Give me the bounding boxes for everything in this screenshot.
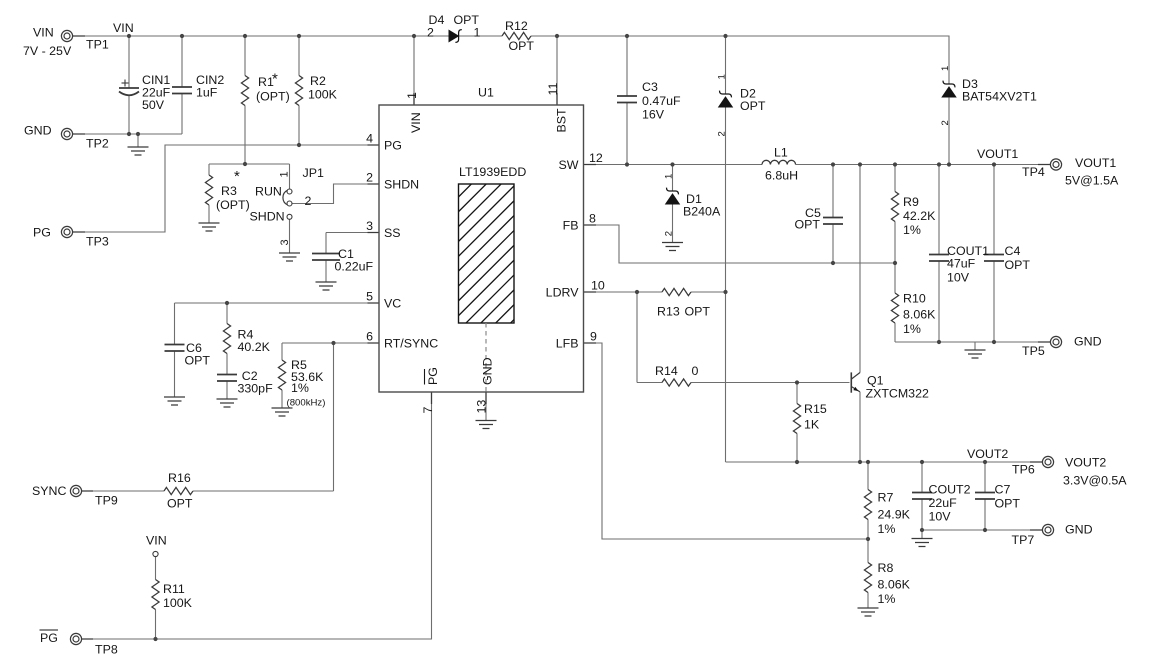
svg-text:Q1: Q1 <box>867 374 884 388</box>
svg-text:OPT: OPT <box>795 218 821 232</box>
svg-text:R16: R16 <box>168 471 191 485</box>
svg-text:TP2: TP2 <box>86 137 109 151</box>
svg-text:100K: 100K <box>163 596 193 610</box>
svg-text:11: 11 <box>546 83 560 96</box>
svg-text:100K: 100K <box>308 88 338 102</box>
svg-text:6: 6 <box>366 330 373 344</box>
svg-text:LT1939EDD: LT1939EDD <box>459 165 526 179</box>
svg-text:3.3V@0.5A: 3.3V@0.5A <box>1063 474 1127 488</box>
svg-text:R12: R12 <box>505 19 528 33</box>
svg-text:13: 13 <box>475 400 489 414</box>
svg-text:5: 5 <box>366 290 373 304</box>
svg-text:BAT54XV2T1: BAT54XV2T1 <box>962 90 1037 104</box>
svg-text:1: 1 <box>664 174 675 179</box>
svg-text:6.8uH: 6.8uH <box>765 169 798 183</box>
svg-text:R3: R3 <box>221 184 237 198</box>
svg-text:FB: FB <box>563 219 579 233</box>
svg-text:OPT: OPT <box>740 99 766 113</box>
svg-text:GND: GND <box>1065 523 1093 537</box>
svg-text:SHDN: SHDN <box>250 210 285 224</box>
svg-text:1%: 1% <box>291 381 309 395</box>
svg-text:OPT: OPT <box>185 354 211 368</box>
svg-text:40.2K: 40.2K <box>238 340 271 354</box>
svg-text:VC: VC <box>384 297 401 311</box>
svg-text:OPT: OPT <box>509 39 535 53</box>
svg-text:12: 12 <box>589 151 603 165</box>
svg-text:VOUT2: VOUT2 <box>967 447 1008 461</box>
svg-text:3: 3 <box>279 239 291 245</box>
svg-text:(800kHz): (800kHz) <box>287 398 326 409</box>
svg-text:8.06K: 8.06K <box>878 578 911 592</box>
svg-text:RT/SYNC: RT/SYNC <box>384 337 438 351</box>
svg-text:PG: PG <box>384 139 402 153</box>
svg-text:C4: C4 <box>1005 244 1021 258</box>
svg-text:GND: GND <box>24 124 52 138</box>
svg-text:10V: 10V <box>947 271 970 285</box>
svg-text:PG: PG <box>426 367 440 385</box>
svg-text:R8: R8 <box>878 561 894 575</box>
svg-text:(OPT): (OPT) <box>256 90 290 104</box>
svg-text:SS: SS <box>384 226 401 240</box>
svg-text:C3: C3 <box>642 80 658 94</box>
svg-text:8.06K: 8.06K <box>903 308 936 322</box>
svg-text:4: 4 <box>366 132 373 146</box>
svg-text:GND: GND <box>1074 335 1102 349</box>
svg-text:SW: SW <box>559 158 579 172</box>
svg-text:1: 1 <box>279 171 291 177</box>
svg-text:10V: 10V <box>929 510 952 524</box>
svg-text:R9: R9 <box>903 195 919 209</box>
svg-text:LDRV: LDRV <box>546 286 580 300</box>
svg-text:22uF: 22uF <box>929 496 958 510</box>
svg-text:VOUT1: VOUT1 <box>977 147 1018 161</box>
svg-text:0: 0 <box>692 364 699 378</box>
svg-text:330pF: 330pF <box>238 382 274 396</box>
svg-text:R13: R13 <box>657 305 680 319</box>
svg-text:RUN: RUN <box>255 185 282 199</box>
svg-text:PG: PG <box>33 226 51 240</box>
svg-text:1K: 1K <box>804 418 820 432</box>
svg-text:COUT2: COUT2 <box>929 483 971 497</box>
svg-text:PG: PG <box>40 631 58 645</box>
svg-text:TP3: TP3 <box>86 235 109 249</box>
svg-text:0.47uF: 0.47uF <box>642 94 681 108</box>
svg-text:1%: 1% <box>878 592 896 606</box>
svg-text:42.2K: 42.2K <box>903 209 936 223</box>
svg-text:7: 7 <box>421 407 435 414</box>
svg-text:8: 8 <box>589 212 596 226</box>
svg-text:LFB: LFB <box>556 337 579 351</box>
svg-text:C7: C7 <box>995 483 1011 497</box>
svg-text:0.22uF: 0.22uF <box>335 260 374 274</box>
svg-text:GND: GND <box>481 357 495 385</box>
svg-text:OPT: OPT <box>167 497 193 511</box>
svg-text:16V: 16V <box>642 108 665 122</box>
svg-text:1%: 1% <box>903 322 921 336</box>
svg-text:47uF: 47uF <box>947 257 976 271</box>
svg-text:TP6: TP6 <box>1012 463 1035 477</box>
svg-text:*: * <box>234 168 240 185</box>
svg-text:R11: R11 <box>163 582 185 596</box>
svg-text:2: 2 <box>940 120 951 125</box>
svg-text:U1: U1 <box>478 86 494 100</box>
svg-text:VIN: VIN <box>33 26 54 40</box>
svg-text:JP1: JP1 <box>303 166 324 180</box>
svg-text:L1: L1 <box>774 146 788 160</box>
svg-text:1uF: 1uF <box>196 86 218 100</box>
svg-text:1%: 1% <box>903 223 921 237</box>
svg-text:9: 9 <box>590 330 597 344</box>
svg-text:50V: 50V <box>142 98 165 112</box>
svg-text:SHDN: SHDN <box>384 178 419 192</box>
svg-text:3: 3 <box>366 219 373 233</box>
svg-text:2: 2 <box>717 131 728 136</box>
svg-text:R10: R10 <box>903 292 926 306</box>
svg-text:VOUT1: VOUT1 <box>1075 156 1116 170</box>
svg-text:VOUT2: VOUT2 <box>1065 456 1106 470</box>
svg-text:VIN: VIN <box>146 534 167 548</box>
svg-text:ZXTCM322: ZXTCM322 <box>866 387 929 401</box>
svg-text:24.9K: 24.9K <box>878 508 911 522</box>
svg-text:OPT: OPT <box>995 497 1021 511</box>
svg-text:7V - 25V: 7V - 25V <box>23 44 72 58</box>
svg-text:1: 1 <box>717 74 728 79</box>
svg-text:TP4: TP4 <box>1022 165 1045 179</box>
svg-text:2: 2 <box>427 26 434 40</box>
svg-text:(OPT): (OPT) <box>216 198 250 212</box>
svg-text:VIN: VIN <box>113 21 134 35</box>
svg-text:R15: R15 <box>804 402 827 416</box>
svg-text:1: 1 <box>940 66 951 71</box>
svg-text:TP9: TP9 <box>95 494 118 508</box>
svg-text:TP7: TP7 <box>1012 533 1035 547</box>
svg-text:TP8: TP8 <box>95 643 118 657</box>
svg-text:B240A: B240A <box>683 205 721 219</box>
svg-text:2: 2 <box>664 231 675 236</box>
svg-text:BST: BST <box>555 108 569 133</box>
svg-text:R7: R7 <box>878 491 894 505</box>
svg-text:1%: 1% <box>878 522 896 536</box>
svg-text:1: 1 <box>405 92 419 99</box>
svg-text:VIN: VIN <box>409 112 423 133</box>
svg-text:5V@1.5A: 5V@1.5A <box>1065 174 1119 188</box>
svg-text:OPT: OPT <box>685 305 711 319</box>
svg-text:TP1: TP1 <box>86 38 109 52</box>
svg-text:R14: R14 <box>655 364 678 378</box>
svg-text:SYNC: SYNC <box>32 484 66 498</box>
svg-text:R2: R2 <box>310 74 326 88</box>
svg-text:10: 10 <box>591 279 605 293</box>
svg-text:2: 2 <box>305 194 312 208</box>
svg-text:1: 1 <box>474 26 481 40</box>
svg-text:*: * <box>272 71 278 88</box>
svg-text:2: 2 <box>366 171 373 185</box>
svg-text:TP5: TP5 <box>1022 344 1045 358</box>
svg-text:OPT: OPT <box>1005 258 1031 272</box>
